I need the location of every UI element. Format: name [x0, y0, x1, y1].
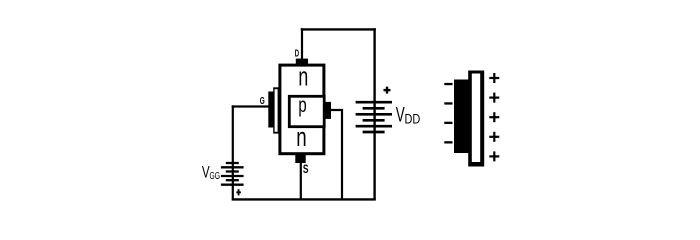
- p region box: [289, 96, 324, 126]
- svg-text:G: G: [260, 95, 265, 107]
- svg-text:GG: GG: [210, 170, 221, 182]
- svg-text:D: D: [295, 48, 299, 59]
- svg-text:n: n: [296, 122, 306, 152]
- battery VDD (3 cells, plus at top): [356, 102, 392, 132]
- charge sheet metal bar (black): [454, 80, 469, 154]
- battery VGG (3 cells, plus at bottom): [221, 163, 244, 185]
- wire bottom rail: [232, 198, 376, 200]
- wire p-contact to bottom rail: [331, 110, 343, 199]
- plus charges: [489, 73, 499, 161]
- wire top rail from drain to VDD: [301, 28, 376, 30]
- wire VGG vertical through battery: [232, 105, 234, 199]
- charge sheet oxide bar (outlined): [468, 71, 484, 167]
- wire source to bottom rail: [300, 162, 302, 199]
- gate oxide bar (outlined): [273, 87, 279, 133]
- wire gate horizontal: [232, 105, 270, 107]
- wire drain vertical: [301, 28, 303, 60]
- drain contact: [296, 59, 308, 65]
- plus polarity marker of VGG: [236, 189, 241, 195]
- transistor body box: [280, 65, 324, 154]
- gate metal black bar: [268, 92, 274, 128]
- wire VDD vertical through battery: [373, 28, 375, 199]
- plus polarity marker of VDD: [384, 87, 391, 94]
- svg-text:n: n: [298, 62, 308, 92]
- minus charges: [444, 83, 452, 144]
- svg-text:p: p: [298, 93, 306, 117]
- svg-text:S: S: [303, 164, 309, 176]
- svg-text:DD: DD: [405, 112, 421, 128]
- p contact: [325, 102, 331, 119]
- source contact: [295, 155, 305, 163]
